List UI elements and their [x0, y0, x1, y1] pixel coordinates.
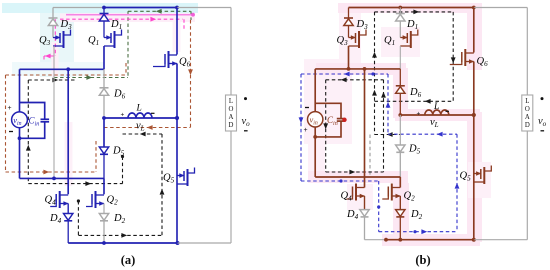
node L right (a) [175, 116, 179, 120]
green dashed loop (a) [128, 10, 191, 12]
svg-text:O: O [229, 106, 234, 113]
transistor Q1 (b) [400, 37, 406, 39]
node bus Q4 branch (a) [66, 67, 70, 71]
transistor Q6 (a) [168, 51, 170, 68]
svg-text:D: D [525, 122, 530, 129]
wire v_in column to bus2 (b) [314, 137, 316, 177]
wire bottom rail red (b) [386, 239, 474, 241]
node bus Q3 (b) [347, 67, 351, 71]
wire v_in left column (a) [19, 69, 21, 112]
wire v_in bottom (b) [314, 127, 316, 137]
wire Q4 drain column (a) [67, 69, 69, 194]
wire cap top branch (a) [20, 103, 45, 120]
highlight cyan Q3 block (a) [40, 13, 74, 77]
wire Q4 drain column (b) [364, 69, 366, 188]
highlight pink Q3 block (b) [339, 13, 361, 70]
highlight pink vin lower (b) [308, 144, 325, 182]
wire bottom rail blue (a) [68, 242, 177, 244]
diode D5 (b) [396, 145, 405, 152]
wire top rail gray right (a) [177, 7, 231, 9]
black dashed loop left (a) [28, 79, 77, 81]
node bus Q4 branch (b) [363, 67, 367, 71]
highlight pink bus1 band (b) [316, 63, 406, 75]
inductor L (b) [425, 110, 449, 115]
highlight pink Q2 column (b) [393, 183, 409, 241]
node D2 rail (b) [398, 238, 402, 242]
wire Q2 source (b) [399, 196, 401, 210]
transistor Q5 (b) [474, 173, 480, 175]
wire Q4 source (a) [67, 204, 69, 214]
diode D6 (a) [103, 69, 105, 88]
minus mark v_in (a) [9, 131, 13, 133]
highlight pink Q5 column (b) [467, 112, 482, 242]
capacitor C_in (b) [337, 118, 346, 120]
svg-text:A: A [525, 114, 530, 121]
svg-text:L: L [525, 98, 529, 105]
wire L-node to D5 gray (b) [399, 115, 401, 145]
diode D6 (b) [399, 69, 401, 86]
svg-text:L: L [433, 102, 439, 112]
wire Q3 source to bus (b) [348, 46, 350, 69]
wire bottom rail gray (a) [178, 242, 232, 244]
wire input bus (b) [315, 68, 400, 70]
wire Q6 source (a) [176, 64, 178, 119]
diode D3 (a) [52, 8, 54, 19]
wire D5 to Q2 (a) [103, 178, 105, 194]
wire cap bottom branch (b) [315, 121, 341, 137]
transistor Q3 (a) [53, 37, 59, 39]
magenta dashed path (a) [66, 14, 193, 16]
diode D5 (a) [99, 147, 108, 154]
black dashed loop top (b) [375, 11, 454, 13]
highlight pink Q4 column (a) [65, 122, 73, 186]
svg-text:L: L [136, 104, 142, 114]
wire Q2 source (a) [103, 204, 105, 214]
minus mark inductor (a) [151, 112, 155, 114]
highlight pink Q1 block (b) [381, 27, 420, 57]
load branch (a) [230, 8, 232, 96]
svg-text:+: + [304, 127, 308, 134]
wire cap top branch (b) [315, 103, 341, 118]
wire v_in bottom (a) [19, 128, 21, 139]
wire top rail blue (a) [104, 7, 177, 9]
transistor Q2 (b) [391, 184, 393, 201]
node L left (b) [398, 113, 402, 117]
source v_in (a) [12, 112, 28, 128]
wire Q4 source red (b) [364, 196, 366, 210]
wire Q5 column (b) [473, 115, 475, 240]
wire top rail gray right (b) [474, 7, 528, 9]
transistor Q4 (a) [59, 191, 61, 208]
load branch (b) [526, 8, 528, 96]
wire output bus2 (b) [315, 176, 400, 178]
svg-text:A: A [229, 114, 234, 121]
minus mark inductor (b) [446, 110, 450, 112]
transistor Q6 (b) [464, 49, 466, 66]
black dashed loop right (a) [123, 133, 163, 135]
blue dashed loop (b) [300, 74, 302, 181]
wire output bus2 (a) [20, 177, 105, 179]
wire top rail red (b) [349, 7, 474, 9]
node L right (b) [472, 113, 476, 117]
transistor Q1 (a) [104, 37, 110, 39]
black dashed loop v_in (b) [325, 80, 327, 172]
highlight cyan bus block (a) [12, 62, 104, 76]
diode D1 (b) [399, 8, 401, 14]
wire Q1 source to bus (a) [103, 46, 105, 69]
node L left (a) [102, 116, 106, 120]
wire D5 to Q2 (b) [399, 177, 401, 188]
highlight pink vin block (b) [304, 59, 352, 144]
diode D2 (b) [396, 210, 405, 217]
wire bottom rail gray right (b) [474, 239, 528, 241]
svg-text:+: + [8, 105, 12, 112]
svg-text:D: D [229, 122, 234, 129]
wire v_in left column (b) [314, 69, 316, 112]
source v_in (b) [308, 112, 323, 127]
highlight cyan top band (a) [2, 3, 198, 13]
highlight pink rail band (b) [382, 234, 480, 246]
wire top rail gray left (a) [53, 7, 104, 9]
highlight pink magenta band (a) [60, 14, 195, 23]
transistor Q4 (b) [355, 184, 357, 201]
diode D3 (b) [348, 8, 350, 19]
highlight pink Q6 drain band (a) [173, 20, 181, 52]
wire Q5 column (a) [176, 118, 178, 243]
node bottom rail Q5 (a) [176, 241, 180, 245]
diode D4 (a) [64, 214, 73, 221]
svg-text:+: + [417, 111, 421, 118]
transistor Q3 (b) [349, 37, 355, 39]
svg-text:(b): (b) [415, 253, 430, 267]
diode D1 (a) [103, 8, 105, 14]
brown dashed loop (a) [5, 75, 7, 172]
node top rail Q6 (b) [472, 6, 476, 10]
highlight pink D6 column (b) [393, 68, 408, 118]
minus mark v_in (b) [305, 107, 309, 109]
transistor Q2 (a) [95, 191, 97, 208]
wire bottom rail gray left (b) [365, 239, 387, 241]
wire cap bottom branch (a) [20, 122, 45, 139]
svg-text:L: L [229, 98, 233, 105]
highlight pink L band (b) [395, 109, 480, 121]
svg-text:(a): (a) [121, 253, 136, 267]
svg-text:+: + [121, 112, 125, 119]
capacitor C_in (a) [41, 118, 50, 120]
wire inductor rail (b) [400, 114, 474, 116]
inductor L (a) [128, 113, 152, 118]
node D2 rail (a) [102, 241, 106, 245]
node bus2 Q3 wire (a) [52, 177, 56, 181]
transistor Q5 (a) [177, 175, 183, 177]
node on top rail at D1 (a) [102, 6, 106, 10]
wire Q6 drain (a) [176, 8, 178, 55]
wire Q6 source (b) [473, 62, 475, 116]
svg-text:O: O [525, 106, 530, 113]
diode D4 (b) [360, 210, 369, 217]
highlight pink top band (b) [338, 3, 482, 13]
wire L-node to D5 (a) [103, 118, 105, 147]
diode D2 (a) [99, 214, 108, 221]
highlight pink bus2 band (b) [308, 171, 408, 183]
node rail left end (b) [384, 238, 388, 242]
node on top rail at Q6 (a) [175, 6, 179, 10]
gray dashed segment (b) [369, 135, 371, 177]
node v_in bottom (b) [313, 135, 317, 139]
wire Q3 source gray down (a) [53, 46, 55, 178]
wire input bus (a) [20, 68, 105, 70]
highlight pink Q4 block (b) [347, 184, 373, 210]
node top rail D1 (b) [398, 6, 402, 10]
highlight pink Q6 column (b) [467, 4, 482, 70]
wire Q6 drain (b) [473, 8, 475, 53]
wire v_in column to bus2 (a) [19, 138, 21, 178]
node rail Q5 (b) [472, 238, 476, 242]
wire inductor rail (a) [104, 117, 177, 119]
wire Q1 source gray (b) [399, 46, 401, 69]
node v_in bottom (a) [18, 136, 22, 140]
highlight pink Q3 column (a) [52, 42, 59, 77]
